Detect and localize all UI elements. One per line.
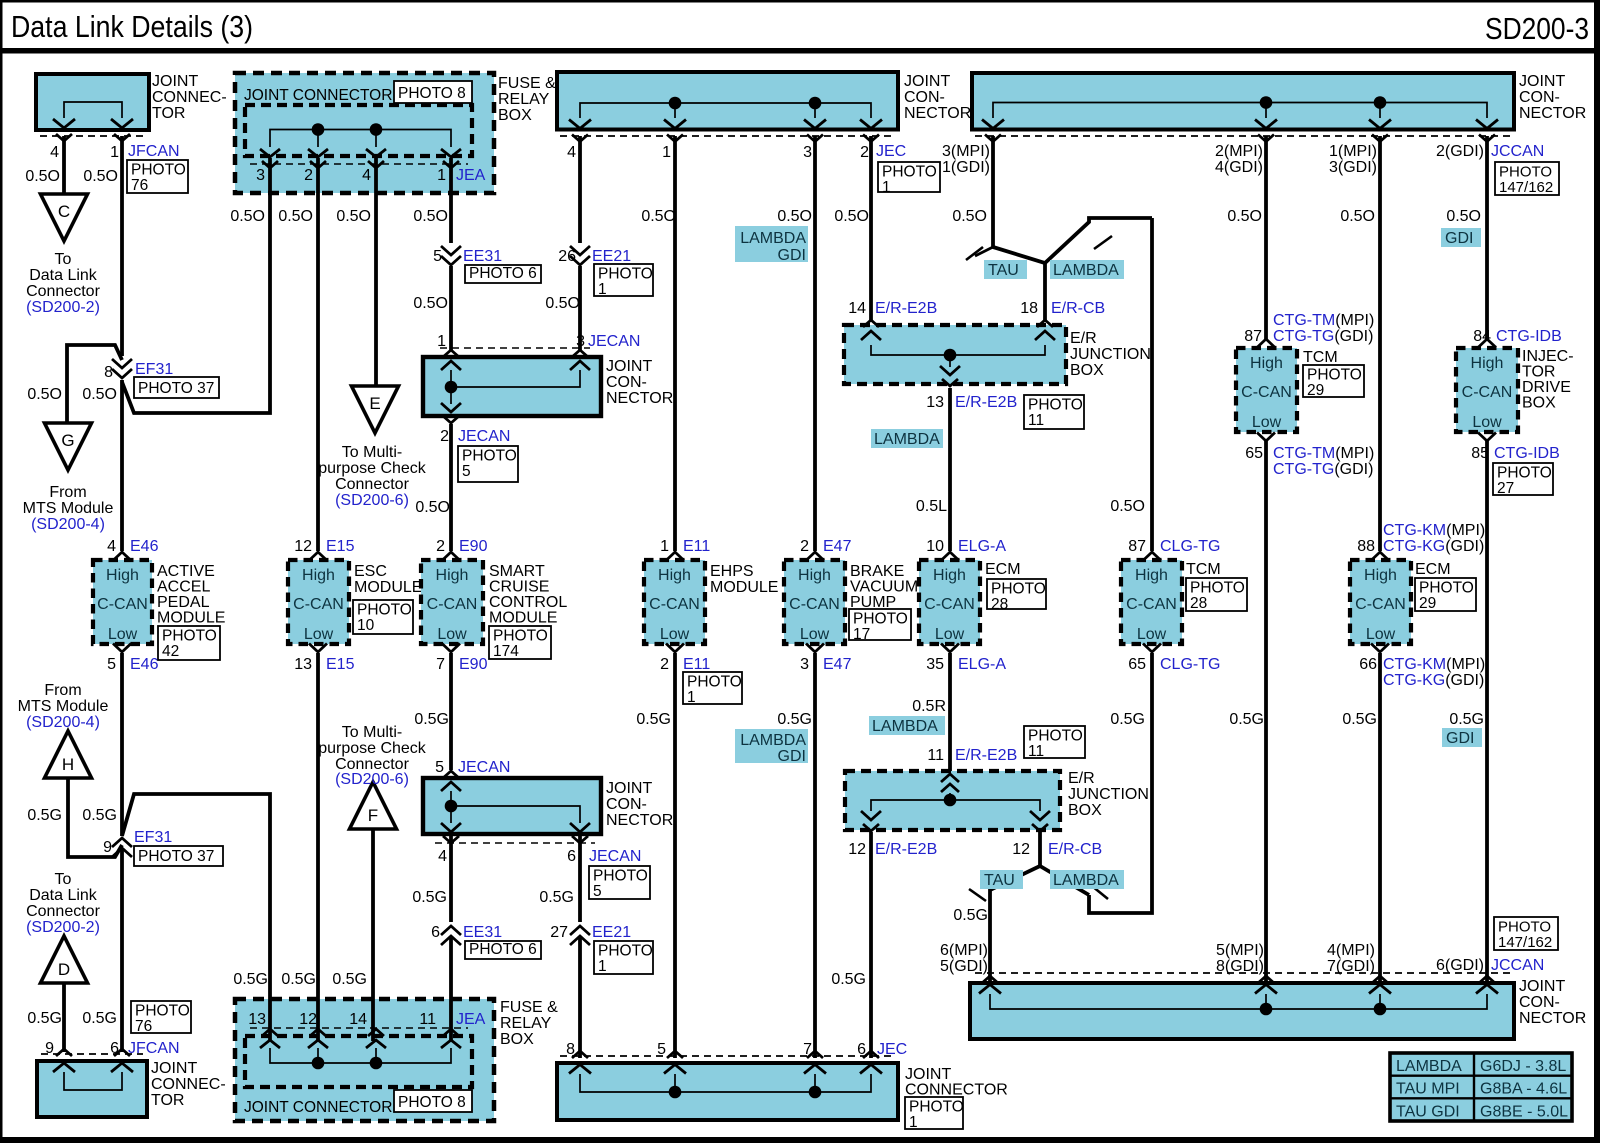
pin 13 JEA bottom: [248, 1011, 266, 1028]
off-page connector C: [41, 194, 88, 241]
label E/R JUNCTION BOX (bottom): [1068, 770, 1149, 819]
wire JCCAN 3(MPI)/1(GDI) to TAU/LAMBDA split: [991, 136, 995, 247]
photo ref PHOTO 37 (top): [134, 377, 219, 398]
svg-text:TCM: TCM: [1186, 561, 1221, 578]
svg-text:(SD200-6): (SD200-6): [335, 771, 409, 788]
photo ref PHOTO 174: [489, 626, 551, 660]
pin 84 CTG-IDB: [1473, 328, 1491, 345]
svg-text:SMART: SMART: [489, 563, 545, 580]
svg-text:PHOTO: PHOTO: [1190, 580, 1245, 597]
net label E/R-E2B (pin 11): [955, 747, 1017, 764]
svg-text:2(GDI): 2(GDI): [1436, 143, 1484, 160]
wire size 0.5O: [952, 208, 987, 225]
label JOINT CON-NECTOR (JCCAN bottom): [1519, 978, 1586, 1027]
svg-text:JECAN: JECAN: [458, 759, 510, 776]
svg-text:12: 12: [1012, 841, 1030, 858]
svg-text:1: 1: [598, 281, 607, 298]
off-page connector G: [45, 423, 92, 470]
svg-text:JCCAN: JCCAN: [1491, 143, 1544, 160]
svg-text:FUSE &: FUSE &: [498, 75, 556, 92]
pin 26 EE21 top: [558, 248, 576, 265]
svg-text:Low: Low: [800, 626, 830, 643]
photo ref PHOTO 147/162 (bottom): [1494, 917, 1558, 951]
net label JCCAN (top): [1491, 143, 1544, 160]
wire JFCAN pin 4 to C: [62, 136, 66, 196]
svg-text:27: 27: [1497, 480, 1514, 497]
photo ref PHOTO 6 (top): [465, 265, 541, 283]
svg-text:2: 2: [860, 144, 869, 161]
svg-text:11: 11: [1028, 743, 1044, 760]
svg-text:PHOTO: PHOTO: [882, 164, 937, 181]
svg-text:E46: E46: [130, 538, 159, 555]
wire size 0.5O: [83, 168, 118, 185]
svg-text:E/R-CB: E/R-CB: [1048, 841, 1102, 858]
svg-text:4: 4: [438, 848, 447, 865]
photo ref PHOTO 37 (bottom): [134, 846, 223, 866]
svg-text:TAU: TAU: [988, 262, 1019, 279]
in-line connector EE21 (top): [570, 246, 590, 265]
svg-text:JECAN: JECAN: [589, 848, 641, 865]
svg-text:F: F: [368, 806, 378, 825]
svg-text:PHOTO: PHOTO: [598, 266, 653, 283]
label To Multi-purpose Check Connector (SD200-6) (top): [318, 444, 427, 509]
svg-text:LAMBDA: LAMBDA: [740, 230, 806, 247]
pin 2 JEA top: [304, 167, 313, 184]
photo ref PHOTO 10: [353, 600, 413, 634]
net label E11 (bottom): [683, 656, 710, 673]
pin 6(GDI) JCCAN bottom: [1436, 957, 1484, 974]
svg-text:JECAN: JECAN: [588, 333, 640, 350]
wire EHPS 2 to JEC pin 5: [673, 653, 677, 1058]
label JOINT CONNECTOR (JEA bottom): [244, 1099, 392, 1116]
wire JECAN pin 6 to EE21 (bottom): [578, 836, 582, 922]
wire EF31 to E46 pin 4: [120, 380, 124, 551]
pin 4 JFCAN top: [50, 144, 59, 161]
svg-text:High: High: [1250, 355, 1283, 372]
net label E/R-CB (pin 12): [1048, 841, 1102, 858]
svg-text:Low: Low: [304, 626, 334, 643]
svg-text:NECTOR: NECTOR: [1519, 1010, 1586, 1027]
svg-text:CTG-KG(GDI): CTG-KG(GDI): [1383, 538, 1484, 555]
svg-text:Low: Low: [108, 626, 138, 643]
svg-text:10: 10: [926, 538, 944, 555]
wire JEA pin 2 to ESC pin 12: [316, 158, 320, 551]
variant tag LAMBDA (top): [1050, 260, 1124, 279]
svg-text:E/R-E2B: E/R-E2B: [875, 300, 937, 317]
svg-text:PHOTO: PHOTO: [1499, 164, 1552, 181]
pin 3(MPI) 1(GDI) JCCAN top: [942, 143, 990, 176]
wire E90 pin 7 to JECAN pin 5: [449, 653, 453, 770]
wire D to JFCAN pin 9: [62, 983, 66, 1052]
svg-text:6: 6: [567, 848, 576, 865]
svg-text:0.5G: 0.5G: [1342, 711, 1377, 728]
svg-text:ELG-A: ELG-A: [958, 538, 1006, 555]
pin 14 E/R-E2B: [848, 300, 866, 317]
wire size 0.5O: [413, 295, 448, 312]
svg-text:C-CAN: C-CAN: [1462, 384, 1513, 401]
svg-text:Low: Low: [660, 626, 690, 643]
pin 1 E11: [660, 538, 669, 555]
svg-text:JOINT: JOINT: [1519, 73, 1565, 90]
svg-text:RELAY: RELAY: [498, 91, 550, 108]
svg-text:High: High: [933, 567, 966, 584]
svg-text:JFCAN: JFCAN: [128, 143, 180, 160]
svg-text:Connector: Connector: [26, 903, 100, 920]
wire size 0.5O: [1110, 498, 1145, 515]
svg-text:0.5G: 0.5G: [1229, 711, 1264, 728]
svg-text:147/162: 147/162: [1498, 934, 1552, 951]
svg-text:From: From: [44, 682, 81, 699]
svg-text:JUNCTION: JUNCTION: [1068, 786, 1149, 803]
svg-text:CONTROL: CONTROL: [489, 594, 567, 611]
photo ref PHOTO 1 (E11): [683, 672, 742, 706]
svg-text:PHOTO: PHOTO: [593, 868, 648, 885]
svg-text:6(MPI): 6(MPI): [940, 942, 988, 959]
photo ref PHOTO 17: [849, 609, 911, 643]
svg-text:E/R: E/R: [1070, 330, 1097, 347]
svg-text:4(GDI): 4(GDI): [1215, 159, 1263, 176]
svg-text:0.5G: 0.5G: [1449, 711, 1484, 728]
svg-text:1: 1: [882, 179, 891, 196]
svg-text:GDI: GDI: [1446, 730, 1474, 747]
svg-text:4: 4: [50, 144, 59, 161]
svg-text:E47: E47: [823, 656, 852, 673]
wire JCCAN 2(GDI) to CTG-IDB 84: [1485, 136, 1489, 340]
svg-text:E90: E90: [459, 538, 488, 555]
pin 7 E90: [436, 656, 445, 673]
photo ref PHOTO 1 (JEC top): [878, 162, 940, 196]
svg-text:1: 1: [662, 144, 671, 161]
svg-text:2: 2: [440, 428, 449, 445]
photo ref PHOTO 1 (JEC bottom): [905, 1097, 964, 1131]
svg-text:CTG-IDB: CTG-IDB: [1496, 328, 1562, 345]
svg-text:PHOTO: PHOTO: [1028, 728, 1083, 745]
svg-text:JOINT: JOINT: [905, 1066, 951, 1083]
svg-text:0.5O: 0.5O: [641, 208, 676, 225]
svg-text:6(GDI): 6(GDI): [1436, 957, 1484, 974]
pin 65 CLG-TG: [1128, 656, 1146, 673]
variant tag TAU (bottom): [980, 870, 1023, 889]
label JOINT CON-NECTOR (JEC top): [904, 73, 971, 122]
svg-text:(SD200-2): (SD200-2): [26, 919, 100, 936]
svg-text:76: 76: [131, 177, 148, 194]
net label JFCAN (top): [128, 143, 180, 160]
label JOINT CON-NECTOR (JCCAN top): [1519, 73, 1586, 122]
wire size 0.5G: [777, 711, 812, 728]
svg-text:LAMBDA: LAMBDA: [1053, 872, 1119, 889]
svg-text:PHOTO: PHOTO: [162, 628, 217, 645]
pin 1 JECAN top: [437, 333, 446, 350]
svg-text:TAU: TAU: [984, 872, 1015, 889]
module SMART CRUISE CONTROL MODULE (E90): [421, 552, 483, 652]
svg-text:Low: Low: [437, 626, 467, 643]
svg-text:Data Link: Data Link: [29, 887, 98, 904]
svg-text:TCM: TCM: [1303, 349, 1338, 366]
net label E15 (bottom): [326, 656, 355, 673]
net label JEA (bottom): [456, 1011, 486, 1028]
net label JEC (bottom): [877, 1041, 907, 1058]
in-line connector EF31 (top): [112, 359, 132, 378]
pin 27 EE21 bottom: [550, 924, 568, 941]
wire size 0.5G: [953, 907, 988, 924]
svg-text:3: 3: [803, 144, 812, 161]
svg-text:0.5O: 0.5O: [413, 208, 448, 225]
svg-text:PHOTO 37: PHOTO 37: [138, 848, 214, 865]
svg-text:C-CAN: C-CAN: [427, 596, 478, 613]
svg-text:12: 12: [848, 841, 866, 858]
svg-text:0.5O: 0.5O: [25, 168, 60, 185]
pin 1 JFCAN top: [110, 144, 119, 161]
wire size 0.5R: [912, 698, 946, 715]
svg-text:26: 26: [558, 248, 576, 265]
wire TCM 65 to JCCAN 5(MPI)/8(GDI): [1264, 441, 1268, 986]
svg-text:Low: Low: [1252, 414, 1282, 431]
svg-text:CONNEC-: CONNEC-: [151, 1076, 226, 1093]
svg-text:LAMBDA: LAMBDA: [872, 718, 938, 735]
wire size 0.5O: [545, 295, 580, 312]
svg-text:DRIVE: DRIVE: [1522, 379, 1571, 396]
wire EF31 to JFCAN pin 6: [120, 850, 124, 1052]
svg-text:purpose Check: purpose Check: [318, 740, 427, 757]
svg-text:PHOTO: PHOTO: [1419, 580, 1474, 597]
wire E46 pin 5 to EF31 (bottom): [120, 653, 124, 836]
variant tag TAU (top): [984, 260, 1027, 279]
svg-text:E46: E46: [130, 656, 159, 673]
svg-text:0.5O: 0.5O: [82, 386, 117, 403]
photo ref PHOTO 28 (TCM): [1186, 578, 1247, 612]
svg-text:High: High: [1364, 567, 1397, 584]
wire E/R-E2B 12 to JEC pin 6: [869, 832, 873, 1058]
joint connector JCCAN (top): [972, 73, 1514, 142]
svg-text:PHOTO 8: PHOTO 8: [398, 1094, 466, 1111]
svg-text:PHOTO: PHOTO: [357, 602, 412, 619]
svg-text:JECAN: JECAN: [458, 428, 510, 445]
net label E90 (top): [459, 538, 488, 555]
net label CLG-TG (top): [1160, 538, 1220, 555]
pin 10 ELG-A: [926, 538, 944, 555]
svg-text:JOINT: JOINT: [606, 780, 652, 797]
svg-text:13: 13: [926, 394, 944, 411]
svg-text:PHOTO: PHOTO: [493, 628, 548, 645]
svg-text:0.5G: 0.5G: [1110, 711, 1145, 728]
pin 8 EF31: [104, 364, 113, 381]
svg-text:PHOTO 37: PHOTO 37: [138, 380, 214, 397]
variant label LAMBDA GDI (bottom): [735, 729, 808, 765]
wire TCM 65 to LAMBDA split (bottom): [1089, 653, 1152, 913]
svg-text:174: 174: [493, 643, 519, 660]
wire size 0.5O: [413, 208, 448, 225]
svg-text:BOX: BOX: [498, 107, 532, 124]
wire size 0.5O: [415, 499, 450, 516]
svg-text:Low: Low: [935, 626, 965, 643]
wire size 0.5O: [1227, 208, 1262, 225]
net label ELG-A (top): [958, 538, 1006, 555]
svg-text:0.5O: 0.5O: [545, 295, 580, 312]
pin 5 E46: [107, 656, 116, 673]
wire JEA pin 1 to EE31: [449, 158, 453, 243]
svg-text:0.5O: 0.5O: [1446, 208, 1481, 225]
svg-text:TAU MPI: TAU MPI: [1396, 1081, 1460, 1098]
TAU/LAMBDA wire split (bottom): [969, 832, 1108, 986]
svg-text:PHOTO: PHOTO: [135, 1003, 190, 1020]
svg-text:E/R-CB: E/R-CB: [1051, 300, 1105, 317]
svg-text:High: High: [798, 567, 831, 584]
svg-text:0.5G: 0.5G: [539, 889, 574, 906]
svg-text:76: 76: [135, 1018, 152, 1035]
svg-text:0.5O: 0.5O: [230, 208, 265, 225]
wire JCCAN 1(MPI)/3(GDI) to ECM 88: [1378, 136, 1382, 551]
svg-text:High: High: [106, 567, 139, 584]
svg-text:PHOTO: PHOTO: [462, 448, 517, 465]
pin 2 JEC top: [860, 144, 869, 161]
svg-text:High: High: [1135, 567, 1168, 584]
svg-text:0.5G: 0.5G: [953, 907, 988, 924]
pin 11 E/R-E2B: [927, 747, 944, 764]
svg-text:Connector: Connector: [335, 476, 409, 493]
wire size 0.5L: [916, 498, 947, 515]
pin 5(MPI) 8(GDI) JCCAN bottom: [1216, 942, 1264, 975]
svg-text:11: 11: [927, 747, 944, 764]
svg-text:0.5G: 0.5G: [82, 807, 117, 824]
pin 4 JEC top: [567, 144, 576, 161]
variant tag GDI (bottom): [1442, 728, 1482, 747]
label JOINT CON-NECTOR (JECAN bottom): [606, 780, 673, 829]
label E/R JUNCTION BOX (top): [1070, 330, 1151, 379]
pin 3 E47: [800, 656, 809, 673]
svg-text:0.5G: 0.5G: [82, 1010, 117, 1027]
module BRAKE VACUUM PUMP (E47): [784, 552, 845, 652]
photo ref PHOTO 27: [1493, 463, 1553, 497]
wire size 0.5G: [831, 971, 866, 988]
label JOINT CON-NECTOR (JECAN top): [606, 358, 673, 407]
label JOINT CONNEC-TOR (top left): [152, 73, 227, 122]
label TCM (middle): [1186, 561, 1221, 578]
net label JEA (top): [456, 167, 486, 184]
svg-text:5: 5: [433, 248, 442, 265]
wire EF31 to JEA pin 13: [122, 794, 270, 1041]
svg-text:FUSE &: FUSE &: [500, 999, 558, 1016]
svg-text:From: From: [49, 484, 86, 501]
wire H to EF31 (bottom): [68, 779, 122, 857]
svg-text:PHOTO: PHOTO: [1497, 465, 1552, 482]
pin 8 JEC bottom: [566, 1041, 575, 1058]
pin 4 JECAN bottom: [438, 848, 447, 865]
svg-text:PHOTO 6: PHOTO 6: [469, 941, 537, 958]
svg-text:0.5O: 0.5O: [1110, 498, 1145, 515]
wire ECM 66 to JCCAN 4(MPI)/7(GDI): [1378, 653, 1382, 986]
net label E90 (bottom): [459, 656, 488, 673]
pin 2(MPI) 4(GDI) JCCAN top: [1215, 143, 1263, 176]
svg-text:NECTOR: NECTOR: [606, 812, 673, 829]
svg-text:E15: E15: [326, 656, 355, 673]
wire size 0.5G: [1342, 711, 1377, 728]
joint connector JEC (bottom): [557, 1051, 898, 1120]
svg-text:11: 11: [1028, 412, 1044, 429]
label To Data Link Connector (SD200-2) (bottom): [26, 871, 100, 936]
wire EE21 to JEC pin 8: [578, 938, 582, 1058]
svg-text:TOR: TOR: [151, 1092, 184, 1109]
svg-text:E15: E15: [326, 538, 355, 555]
svg-text:ACTIVE: ACTIVE: [157, 563, 215, 580]
in-line connector EE31 (top): [441, 246, 461, 265]
svg-text:JUNCTION: JUNCTION: [1070, 346, 1151, 363]
svg-text:C-CAN: C-CAN: [97, 596, 148, 613]
wire size 0.5G: [27, 1010, 62, 1027]
net label EE31 (top): [463, 248, 502, 265]
label From MTS Module (SD200-4) (bottom): [18, 682, 109, 731]
off-page connector H: [45, 731, 92, 778]
label To Data Link Connector (SD200-2): [26, 251, 100, 316]
svg-text:To: To: [55, 871, 72, 888]
wire JEC pin 1 to EHPS pin 1: [673, 136, 677, 551]
label BRAKE VACUUM PUMP: [850, 563, 918, 611]
svg-text:High: High: [658, 567, 691, 584]
pin 12 JEA bottom: [299, 1011, 317, 1028]
photo ref PHOTO 28 (ECM): [987, 579, 1046, 613]
svg-text:MODULE: MODULE: [489, 610, 557, 627]
sheet number SD200-3: [1485, 11, 1589, 46]
svg-text:C-CAN: C-CAN: [924, 596, 975, 613]
svg-text:CTG-TG(GDI): CTG-TG(GDI): [1273, 461, 1373, 478]
svg-text:14: 14: [848, 300, 866, 317]
svg-text:C: C: [58, 202, 70, 221]
svg-text:27: 27: [550, 924, 568, 941]
svg-text:LAMBDA: LAMBDA: [874, 431, 940, 448]
wire ESC 13 to JEA pin 12: [316, 653, 320, 1041]
joint connector JCCAN (bottom): [970, 973, 1514, 1039]
svg-text:3: 3: [256, 167, 265, 184]
svg-text:C-CAN: C-CAN: [1241, 384, 1292, 401]
wire EE21 to JECAN pin 3: [578, 266, 582, 350]
svg-text:EF31: EF31: [134, 829, 172, 846]
wire size 0.5G: [82, 807, 117, 824]
svg-text:9: 9: [103, 839, 112, 856]
fuse and relay box JEA (bottom): [235, 999, 494, 1121]
svg-text:TOR: TOR: [1522, 364, 1555, 381]
svg-text:ELG-A: ELG-A: [958, 656, 1006, 673]
pin 6 JFCAN bottom: [110, 1040, 119, 1057]
svg-text:JEA: JEA: [456, 1011, 486, 1028]
pin 6 EE31 bottom: [431, 924, 440, 941]
svg-text:0.5G: 0.5G: [27, 807, 62, 824]
svg-text:65: 65: [1128, 656, 1146, 673]
pin 13 E15: [294, 656, 312, 673]
pin 9 EF31 (bottom): [103, 839, 112, 856]
pin 18 E/R-CB: [1020, 300, 1038, 317]
svg-text:JOINT: JOINT: [904, 73, 950, 90]
svg-text:MTS Module: MTS Module: [18, 698, 109, 715]
svg-text:2: 2: [660, 656, 669, 673]
svg-text:12: 12: [294, 538, 312, 555]
svg-text:CTG-IDB: CTG-IDB: [1494, 445, 1560, 462]
svg-text:High: High: [1471, 355, 1504, 372]
svg-text:0.5O: 0.5O: [278, 208, 313, 225]
svg-text:PHOTO: PHOTO: [1307, 367, 1362, 384]
svg-text:29: 29: [1307, 382, 1324, 399]
svg-text:0.5O: 0.5O: [336, 208, 371, 225]
wire ECM 35 to E/R-E2B 11: [948, 653, 952, 771]
net label E/R-E2B (pin 12): [875, 841, 937, 858]
svg-text:JOINT: JOINT: [152, 73, 198, 90]
svg-text:E/R: E/R: [1068, 770, 1095, 787]
svg-text:LAMBDA: LAMBDA: [1396, 1058, 1462, 1075]
net label E15 (top): [326, 538, 355, 555]
label To Multi-purpose Check Connector (SD200-6) (bottom): [318, 724, 427, 788]
svg-text:0.5G: 0.5G: [233, 971, 268, 988]
svg-text:LAMBDA: LAMBDA: [740, 732, 806, 749]
svg-text:JCCAN: JCCAN: [1491, 957, 1544, 974]
module INJECTOR DRIVE BOX: [1456, 339, 1518, 441]
